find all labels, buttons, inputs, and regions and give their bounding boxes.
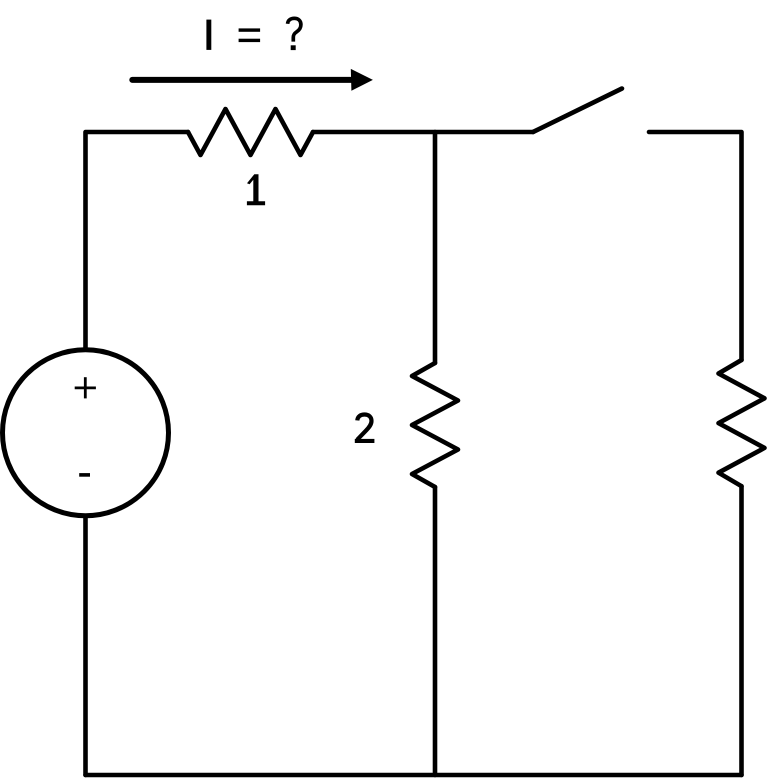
V1 minus sign	[79, 473, 90, 477]
resistor R2 (label 2, vertical middle)	[412, 363, 458, 487]
current arrow I	[132, 69, 373, 91]
label 2	[355, 415, 375, 444]
V1 plus sign	[75, 377, 96, 398]
wire: switch right contact to top-right corner, down to R3	[649, 132, 742, 360]
wire: V1 bottom to bottom-left corner	[83, 517, 88, 776]
resistor R3 (vertical right)	[719, 360, 765, 486]
label I = ?	[206, 18, 301, 50]
node A: middle branch top wire	[433, 132, 438, 363]
label 1	[247, 174, 265, 205]
wire: R1 to switch pivot (through node A)	[313, 130, 533, 135]
wire: R2 bottom to bottom rail	[433, 487, 438, 775]
wire: R3 bottom to bottom-right corner	[739, 486, 744, 775]
wire: bottom rail	[86, 773, 742, 778]
voltage source V1 circle	[3, 350, 169, 516]
wire: left vertical + top-left horizontal	[86, 132, 189, 349]
switch S1 (open)	[533, 89, 622, 133]
resistor R1 (label 1, horizontal)	[188, 109, 313, 155]
